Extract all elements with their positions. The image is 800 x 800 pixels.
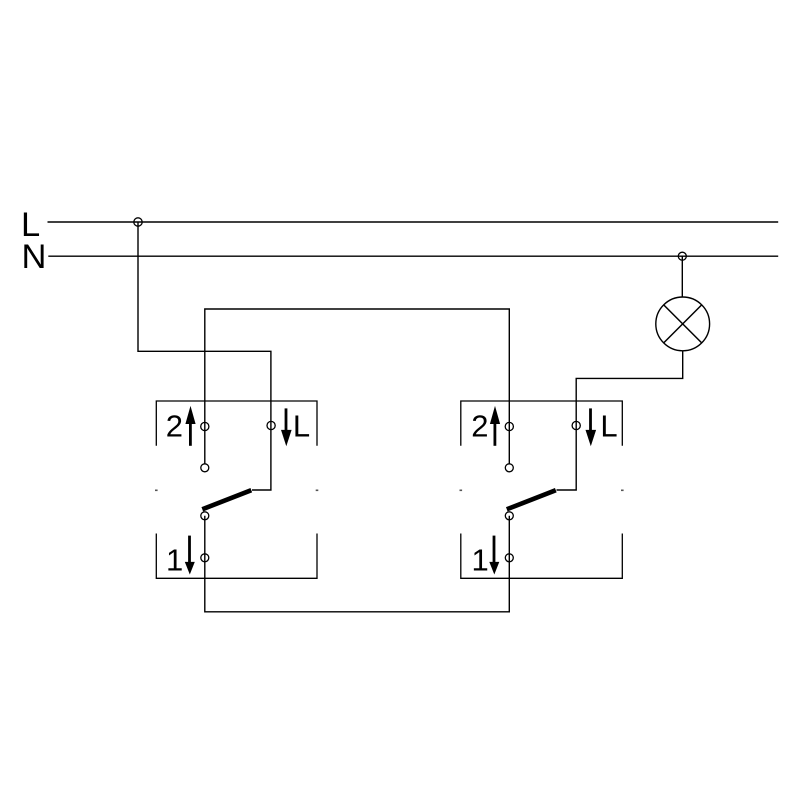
switch S2 L terminal node [572,421,580,429]
wire: L bus line [48,221,779,223]
svg-text:1: 1 [472,543,489,578]
svg-text:L: L [293,409,310,444]
switch S1 terminal 1 node [201,554,209,562]
switch S2 blade pivot node [505,512,513,520]
switch S2 blade (lever) [507,490,556,509]
wire: N junction down to lamp top [681,256,683,297]
svg-text:N: N [22,238,47,276]
switch S2 terminal 2 node [505,422,513,430]
switch S2 fixed contact node (pole 2) [505,464,513,472]
wire: L junction down, right, into S1 L-terminal and to S1 switch blade contact [138,222,271,490]
switch S1 enclosure right mid dash [316,489,319,491]
switch S1 enclosure bottom bracket [156,534,317,579]
node: junction on N bus [678,252,686,260]
switch S1 down arrow at L terminal [281,408,292,446]
svg-text:L: L [600,409,617,444]
switch S1 L terminal node [267,421,275,429]
switch S2 up arrow at terminal 2 [490,406,500,446]
switch S1 up arrow at terminal 2 [185,406,195,446]
switch S1 fixed contact node (pole 2) [201,464,209,472]
switch S2 down arrow at terminal 1 [489,536,499,575]
switch S2 enclosure top bracket [461,401,623,446]
switch S1 blade pivot node [201,512,209,520]
switch S2 terminal 1 node [505,554,513,562]
switch S2 enclosure right mid dash [621,489,624,491]
wire: lamp bottom down, left, into S2 L-terminal and to S2 switch blade contact [557,352,683,491]
wire: S1 terminal 2 up, across, down to S2 terminal 2 (traveller) [205,309,510,464]
switch S1 blade (lever) [202,490,251,509]
switch S2 enclosure left mid dash [460,489,463,491]
switch S2 down arrow at L terminal [586,408,597,446]
lamp E1 [656,297,710,351]
switch S1 enclosure top bracket [156,401,317,446]
switch S2 enclosure bottom bracket [461,534,623,579]
svg-text:2: 2 [166,409,183,444]
node: junction on L bus [134,218,142,226]
switch S1 terminal 2 node [201,422,209,430]
svg-text:2: 2 [471,409,488,444]
switch S1 down arrow at terminal 1 [185,536,195,575]
wire: S1 terminal 1 down, across, up to S2 terminal 1 (traveller) [205,516,510,612]
switch S1 enclosure left mid dash [155,489,158,491]
svg-text:1: 1 [166,543,183,578]
wire: N bus line [48,255,778,257]
